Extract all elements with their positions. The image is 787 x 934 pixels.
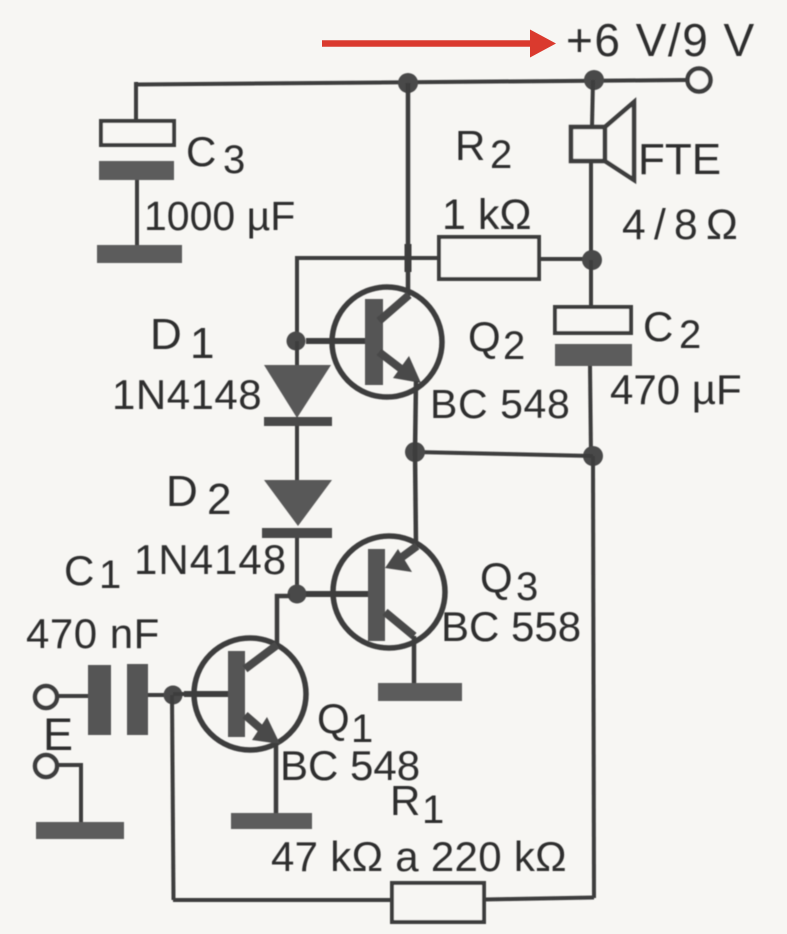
ground Q3 (378, 683, 462, 701)
node Q1 base (164, 686, 183, 705)
wire base node to Q1 (173, 692, 196, 696)
svg-text:Q: Q (468, 313, 501, 360)
svg-text:2: 2 (207, 475, 231, 524)
wire bottom rail left (173, 898, 392, 902)
capacitor C1 (88, 664, 148, 735)
node junction top right (584, 70, 604, 90)
svg-text:2: 2 (503, 324, 525, 368)
svg-text:C: C (186, 128, 216, 175)
svg-text:1000 µF: 1000 µF (144, 193, 295, 239)
wire C3 to ground (135, 180, 139, 247)
svg-text:1: 1 (99, 553, 121, 597)
svg-text:3: 3 (223, 138, 245, 182)
node junction top left (398, 73, 418, 93)
wire top rail (136, 80, 687, 85)
svg-text:1: 1 (190, 319, 214, 368)
terminal E (open circle) (35, 755, 57, 777)
wire bottom rail right (484, 898, 594, 900)
wire D1 to D2 (295, 426, 299, 482)
wire Q2 collector drop (406, 83, 411, 296)
wire Q1 collector riser (277, 596, 290, 648)
svg-text:C: C (643, 303, 673, 350)
wire output node to C2 (589, 260, 593, 307)
svg-text:D: D (150, 310, 182, 359)
transistor Q1 (184, 638, 306, 750)
wire R2 left to base node (297, 258, 439, 332)
wire Q1 emitter to ground (274, 743, 279, 815)
wire speaker to output node (589, 161, 593, 260)
node Q2 emitter bottom (405, 442, 425, 462)
wire base node to D1 (295, 341, 299, 367)
capacitor C2 (555, 307, 632, 366)
ground C3 (97, 245, 182, 263)
svg-text:1N4148: 1N4148 (112, 371, 262, 418)
svg-text:D: D (166, 467, 198, 516)
ground Q1 (231, 813, 312, 829)
terminal input (open circle) (35, 686, 57, 708)
svg-text:2: 2 (679, 313, 701, 357)
resistor R2 (439, 237, 539, 279)
svg-text:E: E (43, 709, 73, 760)
wire Q2 emitter drop (415, 381, 416, 452)
svg-text:470 nF: 470 nF (26, 610, 160, 657)
red annotation arrow (322, 30, 556, 58)
wire C1 to Q1 base node (148, 693, 164, 697)
wire D2 to Q3 base node (295, 538, 299, 594)
wire emitter rail (415, 452, 593, 456)
svg-text:1: 1 (422, 788, 444, 832)
capacitor C3 (99, 121, 174, 180)
wire E to ground (57, 765, 81, 824)
svg-text:BC 558: BC 558 (441, 603, 581, 650)
wire C3 top lead (134, 82, 138, 121)
wire output column (593, 456, 594, 898)
wire input to C1 (57, 694, 88, 698)
node output (582, 250, 602, 270)
svg-text:BC 548: BC 548 (430, 381, 570, 427)
svg-text:4 / 8 Ω: 4 / 8 Ω (622, 202, 738, 249)
wire feedback left column (172, 695, 174, 900)
svg-text:Q: Q (480, 554, 513, 601)
svg-text:R: R (455, 122, 485, 169)
diode D2 (262, 480, 332, 538)
svg-text:2: 2 (490, 133, 512, 177)
diode D1 (264, 365, 332, 426)
svg-text:R: R (390, 777, 420, 824)
speaker FTE (571, 102, 634, 180)
wire speaker top lead (592, 80, 593, 127)
svg-text:Q: Q (317, 695, 350, 742)
wire Q3 collector to ground (412, 636, 417, 685)
wire Q3 emitter feed (415, 452, 416, 546)
transistor Q2 (306, 287, 442, 397)
svg-text:C: C (64, 547, 94, 594)
svg-text:47 kΩ a 220 kΩ: 47 kΩ a 220 kΩ (271, 833, 567, 880)
crossing mark (405, 244, 412, 272)
ground E (36, 822, 124, 839)
wire C2 to lower node (590, 366, 591, 456)
node Q3 base (288, 585, 307, 604)
transistor Q3 (306, 536, 445, 648)
resistor R1 (392, 883, 484, 922)
node C2 bottom (583, 446, 603, 466)
svg-text:470 µF: 470 µF (610, 366, 742, 413)
terminal +V (open circle) (688, 69, 711, 92)
svg-text:1 kΩ: 1 kΩ (442, 191, 532, 239)
svg-text:FTE: FTE (638, 135, 721, 184)
svg-text:1N4148: 1N4148 (134, 536, 287, 583)
svg-text:+6 V/9 V: +6 V/9 V (566, 14, 756, 66)
node Q2 base (287, 332, 306, 351)
wire R2 to output node (539, 257, 585, 261)
